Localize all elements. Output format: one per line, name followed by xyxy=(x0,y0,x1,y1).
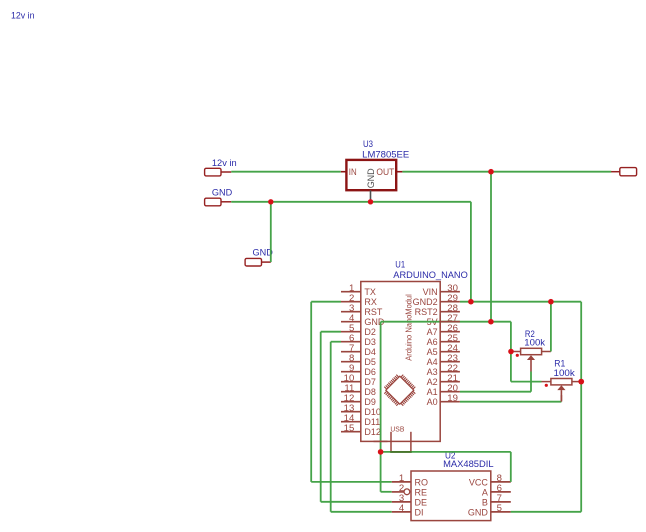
wire GND net: port to corner xyxy=(231,201,471,203)
pin stub U1 pin 1 TX xyxy=(341,291,361,293)
pin stub U2 pin 7 B xyxy=(491,501,511,503)
wire VCC branch: horizontal to U2 VCC xyxy=(381,451,511,453)
svg-text:A5: A5 xyxy=(427,347,438,357)
R2 wiper stub xyxy=(530,360,532,372)
svg-text:19: 19 xyxy=(447,393,458,404)
wire 5V net: U3 OUT to right port xyxy=(402,171,611,173)
svg-text:12v in: 12v in xyxy=(11,10,35,20)
wire 12V net: port to U3 IN xyxy=(231,171,340,173)
pin stub U1 pin 29 GND2 xyxy=(440,301,460,303)
potentiometer R1 body xyxy=(551,379,572,385)
wire D3 net: U1 pin 6 to left xyxy=(331,341,341,343)
wire 5V net: vertical drop to 5V pin row xyxy=(490,171,492,322)
pin stub U2 pin 4 DI xyxy=(392,511,411,513)
pin stub U1 pin 10 D7 xyxy=(341,381,361,383)
svg-text:100k: 100k xyxy=(524,338,545,348)
svg-text:U1: U1 xyxy=(395,259,405,269)
pin stub U1 pin 25 A6 xyxy=(440,341,460,343)
pin stub U1 pin 6 D3 xyxy=(341,341,361,343)
pin stub U2 pin 5 GND xyxy=(491,511,511,513)
pin stub U1 pin 2 RX xyxy=(341,301,361,303)
svg-text:A3: A3 xyxy=(427,367,438,377)
wire RX net: to U2 pin 1 RO xyxy=(311,481,392,483)
svg-text:A0: A0 xyxy=(427,397,438,407)
pin stub U1 pin 9 D6 xyxy=(341,371,361,373)
junction GND to R2 right xyxy=(548,299,554,305)
svg-text:RO: RO xyxy=(415,477,429,487)
svg-text:A7: A7 xyxy=(427,327,438,337)
svg-text:OUT: OUT xyxy=(376,167,394,177)
USB connector right side xyxy=(410,432,412,452)
pin stub U1 pin 14 D11 xyxy=(341,421,361,423)
svg-text:D9: D9 xyxy=(364,397,376,407)
wire D2 net: vertical down xyxy=(320,332,322,502)
pin stub U1 pin 11 D8 xyxy=(341,391,361,393)
pin stub U2 pin 3 DE xyxy=(392,501,411,503)
junction R1 right terminal xyxy=(578,379,584,385)
pin stub U1 pin 27 5V xyxy=(440,321,460,323)
pin stub U1 pin 20 A1 xyxy=(440,391,460,393)
svg-text:GND: GND xyxy=(212,188,232,198)
pin stub U3 GND xyxy=(370,190,372,202)
pin stub U1 pin 19 A0 xyxy=(440,401,460,403)
svg-text:GND: GND xyxy=(366,168,376,188)
svg-text:RE: RE xyxy=(415,487,428,497)
svg-text:D12: D12 xyxy=(364,427,381,437)
svg-text:GND: GND xyxy=(253,248,273,258)
svg-text:GND: GND xyxy=(468,507,489,517)
port stub 12v in xyxy=(221,171,231,173)
wire D2 net: to U2 pin 3 DE xyxy=(321,501,392,503)
pin stub U2 pin 8 VCC xyxy=(491,481,511,483)
U1 right edge over 5V wire crossing xyxy=(439,315,441,329)
svg-text:A2: A2 xyxy=(427,377,438,387)
wire GND net: to U2 pin 5 GND xyxy=(511,511,582,513)
pin stub U2 pin 6 A xyxy=(491,491,511,493)
pin stub U2 pin 2 RE xyxy=(392,491,404,493)
pin stub U2 pin 1 RO xyxy=(392,481,411,483)
svg-text:A6: A6 xyxy=(427,337,438,347)
svg-text:VCC: VCC xyxy=(469,477,489,487)
USB connector bottom edge over wire xyxy=(390,451,412,453)
svg-text:U3: U3 xyxy=(363,139,373,149)
pin stub U1 pin 15 D12 xyxy=(341,431,361,433)
junction GND port branch xyxy=(268,199,273,204)
pin stub U1 pin 23 A4 xyxy=(440,361,460,363)
svg-text:5: 5 xyxy=(497,503,502,514)
MCU U1 ARDUINO_NANO body xyxy=(361,282,440,442)
pin stub U1 pin 28 RST2 xyxy=(440,311,460,313)
wire R2 wiper net: vertical xyxy=(530,372,532,392)
wire GND net: GND2 row horizontal xyxy=(460,301,581,303)
svg-text:12v in: 12v in xyxy=(212,158,237,168)
junction 5V net top xyxy=(488,169,494,175)
U1 bottom edge over vertical wire crossing xyxy=(374,440,388,442)
wire RX net: U1 pin 2 to left xyxy=(311,301,341,303)
junction U3 GND to GND net xyxy=(368,199,373,204)
svg-text:LM7805EE: LM7805EE xyxy=(362,149,409,159)
port 12v in xyxy=(205,168,221,176)
R2 left terminal stub xyxy=(512,351,521,353)
wire GND net: branch down to R2 right xyxy=(550,302,552,352)
junction GND2 row xyxy=(468,299,474,305)
svg-text:A: A xyxy=(482,487,488,497)
pin stub U1 pin 7 D4 xyxy=(341,351,361,353)
wire D3 net: vertical down xyxy=(330,342,332,512)
junction R2 left terminal xyxy=(508,349,514,355)
wire 5V: vertical through R2 left terminal xyxy=(510,322,512,382)
wire D2 net: U1 pin 5 to left xyxy=(321,331,341,333)
svg-text:D5: D5 xyxy=(364,357,376,367)
svg-text:15: 15 xyxy=(344,423,355,434)
svg-text:A1: A1 xyxy=(427,387,438,397)
svg-text:ARDUINO_NANO: ARDUINO_NANO xyxy=(393,270,468,280)
svg-text:TX: TX xyxy=(364,287,376,297)
pin stub U1 pin 30 VIN xyxy=(440,291,460,293)
port stub 5V out xyxy=(611,171,620,173)
svg-text:D11: D11 xyxy=(364,417,380,427)
wire GND net: vertical down to GND2 row xyxy=(470,202,472,302)
wire VCC branch: vertical to U2 pin 8 xyxy=(510,452,512,482)
svg-text:RX: RX xyxy=(364,297,377,307)
R1 left terminal stub xyxy=(542,381,551,383)
port GND xyxy=(205,198,221,206)
potentiometer R2 body xyxy=(521,348,542,354)
junction VCC branch at USB xyxy=(378,449,384,455)
pin stub U1 pin 13 D10 xyxy=(341,411,361,413)
R1 wiper arrow xyxy=(557,385,565,390)
pin stub U3 OUT xyxy=(396,171,402,173)
pin stub U1 pin 8 D5 xyxy=(341,361,361,363)
U2 pin 2 RE inversion bubble xyxy=(404,489,410,495)
svg-text:A4: A4 xyxy=(427,357,438,367)
wire 5V row: U1 pin 27 5V horizontal xyxy=(381,321,511,323)
svg-text:D8: D8 xyxy=(364,387,376,397)
wire 5V: to U2 pin 2 RE xyxy=(381,491,392,493)
R2 asterisk mark xyxy=(516,354,519,357)
port 5V out (right) xyxy=(620,168,637,176)
junction 5V row xyxy=(488,319,494,325)
pin stub U1 pin 5 D2 xyxy=(341,331,361,333)
port stub GND xyxy=(221,201,231,203)
R2 right terminal stub xyxy=(542,351,551,353)
wire R1 wiper net: to U1 pin 19 A0 xyxy=(460,401,562,403)
pin stub U1 pin 12 D9 xyxy=(341,401,361,403)
svg-text:100k: 100k xyxy=(554,368,576,378)
wire GND net: right vertical down xyxy=(580,302,582,512)
pin stub U1 pin 3 RST xyxy=(341,311,361,313)
svg-text:D2: D2 xyxy=(364,327,376,337)
svg-text:MAX485DIL: MAX485DIL xyxy=(443,459,494,469)
svg-text:B: B xyxy=(482,497,488,507)
svg-text:4: 4 xyxy=(399,503,405,514)
pin stub U1 pin 21 A2 xyxy=(440,381,460,383)
pin stub U1 pin 26 A7 xyxy=(440,331,460,333)
R1 right terminal stub xyxy=(572,381,581,383)
R1 asterisk mark xyxy=(545,384,548,387)
svg-text:D6: D6 xyxy=(364,367,376,377)
USB connector left side xyxy=(390,432,392,452)
port stub GND lower xyxy=(262,261,271,263)
pin stub U1 pin 24 A5 xyxy=(440,351,460,353)
svg-text:DE: DE xyxy=(415,497,428,507)
svg-text:D4: D4 xyxy=(364,347,376,357)
pin stub U1 pin 27 5V (over wire) xyxy=(440,321,460,323)
svg-text:D10: D10 xyxy=(364,407,381,417)
svg-text:R1: R1 xyxy=(554,358,565,368)
R2 wiper arrow xyxy=(527,355,535,360)
svg-text:VIN: VIN xyxy=(423,287,438,297)
R1 wiper stub lower part xyxy=(560,395,562,402)
svg-text:DI: DI xyxy=(415,507,424,517)
port GND lower xyxy=(245,258,261,266)
voltage regulator U3 LM7805EE body xyxy=(346,160,396,190)
wire R2 wiper net: to U1 pin 20 A1 xyxy=(460,391,531,393)
svg-text:USB: USB xyxy=(390,425,404,434)
pin stub U1 pin 4 GND xyxy=(341,321,361,323)
R1 wiper stub xyxy=(560,390,562,401)
wire GND net: branch down to lower GND port xyxy=(270,202,272,262)
wire 5V: to R1 left terminal xyxy=(511,381,542,383)
wire RX net: vertical down xyxy=(310,302,312,482)
svg-text:D3: D3 xyxy=(364,337,376,347)
pin stub U1 pin 22 A3 xyxy=(440,371,460,373)
pin stub U3 IN xyxy=(341,171,347,173)
transceiver U2 MAX485DIL body xyxy=(411,471,491,521)
svg-text:GND2: GND2 xyxy=(413,297,438,307)
wire 5V: vertical down through U1 to U2 RE xyxy=(380,322,382,492)
wire D3 net: to U2 pin 4 DI xyxy=(331,511,392,513)
svg-text:D7: D7 xyxy=(364,377,376,387)
svg-text:RST: RST xyxy=(364,307,383,317)
svg-text:RST2: RST2 xyxy=(415,307,438,317)
svg-text:IN: IN xyxy=(349,167,357,177)
U1 chip diamond graphic xyxy=(384,375,415,406)
